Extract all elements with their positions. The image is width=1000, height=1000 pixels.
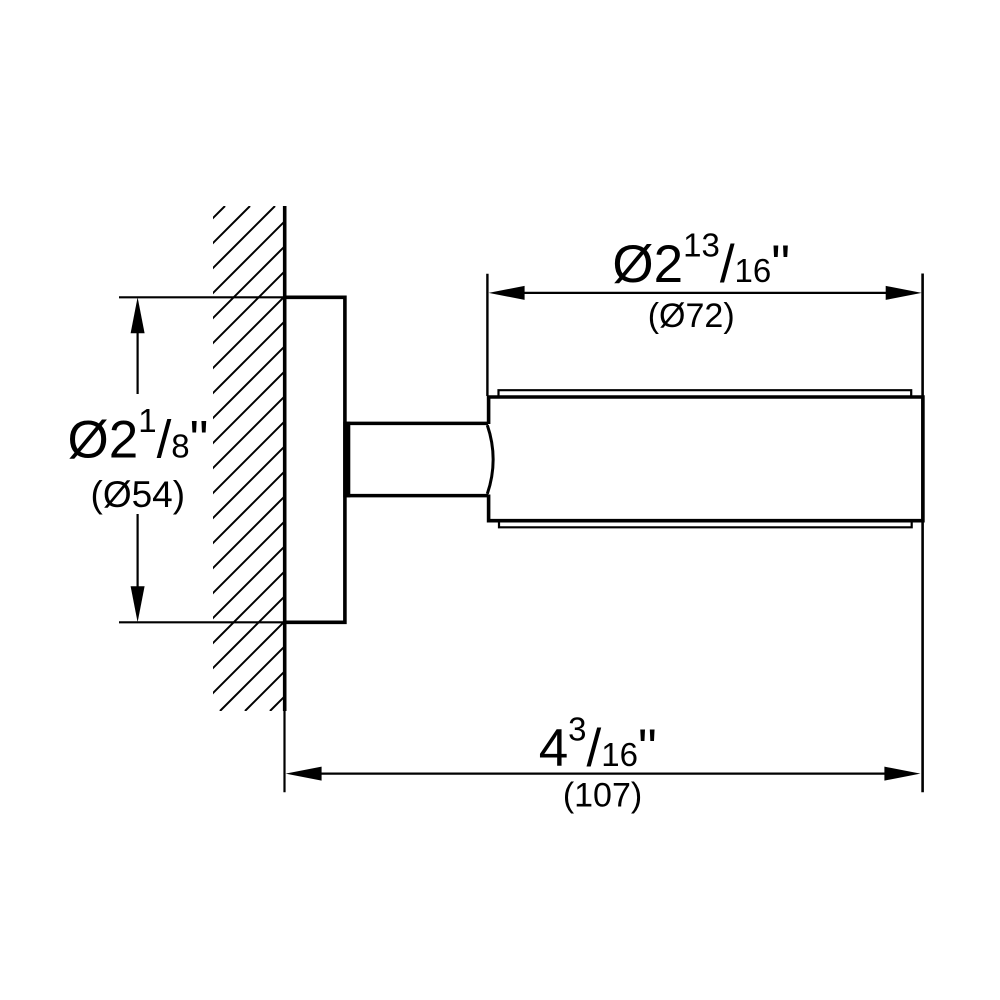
svg-text:Ø213/16": Ø213/16" [612, 226, 790, 294]
svg-text:(Ø72): (Ø72) [648, 297, 735, 335]
svg-text:(Ø54): (Ø54) [91, 474, 186, 515]
svg-text:43/16": 43/16" [539, 710, 657, 778]
svg-text:(107): (107) [563, 777, 642, 815]
